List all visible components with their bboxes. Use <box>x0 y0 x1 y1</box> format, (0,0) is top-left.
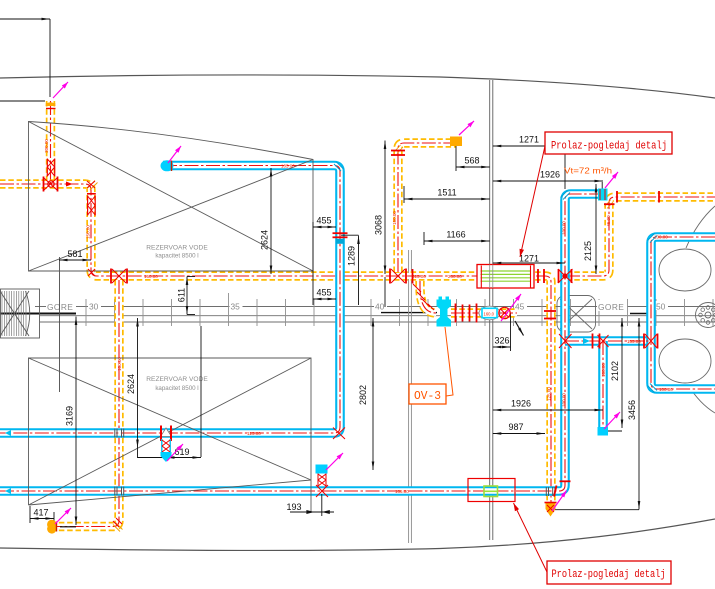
orange cap bottom-left pipe start <box>47 520 56 534</box>
dim 1166 <box>424 240 490 242</box>
svg-text:125.00: 125.00 <box>546 387 551 401</box>
elbow flanges C2 bottom corner <box>554 486 557 497</box>
magenta arrow at suction diamond <box>552 491 567 512</box>
top-left dimension box <box>0 18 50 20</box>
flange on main before elbow right <box>537 269 539 283</box>
svg-text:1511: 1511 <box>437 188 456 198</box>
orange cap top-left pipe start <box>46 102 56 105</box>
propeller shaft centerline black segment <box>630 313 649 315</box>
flange pair on cyan riser x=340 <box>333 232 348 234</box>
svg-text:105.00: 105.00 <box>281 163 295 168</box>
svg-text:kapacitet 8500 l: kapacitet 8500 l <box>155 253 198 260</box>
propeller blade upper <box>659 249 711 291</box>
svg-text:166.00: 166.00 <box>395 489 409 494</box>
svg-text:987: 987 <box>508 422 523 432</box>
orange pipe: vertical riser top-left <box>46 101 55 184</box>
svg-text:581: 581 <box>67 249 82 259</box>
label box: Prolaz-pogledaj detalj (top) <box>520 132 672 257</box>
magenta arrow at C2 top fitting <box>605 172 618 188</box>
flanges on cyan run y=341 <box>592 334 594 349</box>
svg-text:125.00: 125.00 <box>247 431 261 436</box>
corner marks at (340,433) <box>333 428 345 440</box>
valve stub above cross (50.5,167) <box>46 159 48 177</box>
svg-text:100.00: 100.00 <box>117 357 122 371</box>
dim 455 upper <box>313 226 336 228</box>
dim 2624 upper <box>270 168 272 274</box>
cyan elbow fans <box>334 162 344 171</box>
svg-text:35: 35 <box>231 302 241 312</box>
cyan pipe C4: drop x=603 <box>598 341 608 429</box>
magenta arrow at C4 cap <box>604 412 620 429</box>
svg-text:455: 455 <box>316 288 331 298</box>
dim 611 <box>186 277 188 315</box>
orange pipe: right side riser x=608 and top run y=197 <box>566 197 715 276</box>
svg-text:100.00: 100.00 <box>562 221 567 235</box>
magenta arrow at riser (322,470) <box>326 453 343 470</box>
red flange circle <box>499 307 510 318</box>
water tank 2 outline <box>29 358 312 512</box>
svg-text:619: 619 <box>174 447 189 457</box>
oval fitting with bellows <box>479 306 500 320</box>
crossing marks at (119,433) <box>115 429 124 438</box>
pump elbow marks <box>412 269 414 284</box>
GORE label left <box>46 300 76 311</box>
svg-text:REZERVOAR VODE: REZERVOAR VODE <box>146 376 208 383</box>
frame line near x=59 <box>59 257 61 392</box>
label box: Prolaz-pogledaj detalj (bottom) <box>514 503 672 584</box>
svg-text:417: 417 <box>33 508 48 518</box>
svg-text:2125: 2125 <box>583 241 593 261</box>
svg-text:150.00: 150.00 <box>392 211 397 225</box>
svg-text:455: 455 <box>316 216 331 226</box>
svg-text:315.00: 315.00 <box>412 274 426 279</box>
tee marks at (603,341) <box>598 335 609 347</box>
svg-text:REZERVOAR VODE: REZERVOAR VODE <box>146 245 208 252</box>
svg-text:3068: 3068 <box>374 215 384 235</box>
centerline band top line <box>35 306 715 308</box>
dim 1926 top <box>601 182 603 191</box>
flow arrow on pipe y=184 <box>66 182 73 187</box>
cyan centerlines <box>0 166 340 434</box>
water tank 1 cross <box>29 122 314 272</box>
dim 1231 <box>493 262 565 264</box>
propeller blade lower <box>659 339 711 383</box>
svg-text:3456: 3456 <box>627 400 637 420</box>
dim 2102 <box>621 318 623 428</box>
svg-text:160.0: 160.0 <box>484 312 495 317</box>
orange pipe: elbow down to pump <box>420 281 436 313</box>
cyan pipe C5: cooling loop right <box>651 237 715 389</box>
svg-text:326: 326 <box>494 336 509 346</box>
dim 1926 bottom <box>493 409 603 411</box>
pump body OV-3 <box>437 300 452 327</box>
elbow marks (91,184) <box>87 181 95 188</box>
magenta arrow at cyan C1 start <box>168 146 181 163</box>
cyan cap C4 end <box>598 427 609 436</box>
junction cyan/orange at (563.5,276) <box>558 269 573 283</box>
svg-text:100.00: 100.00 <box>659 387 673 392</box>
svg-text:kapacitet 8500 l: kapacitet 8500 l <box>155 385 198 392</box>
svg-text:260.00: 260.00 <box>448 274 462 279</box>
magenta arrow at pump outlet <box>501 294 521 321</box>
frame number 50 <box>655 301 668 310</box>
propeller hub <box>696 303 715 328</box>
svg-text:Prolaz-pogledaj detalj: Prolaz-pogledaj detalj <box>552 569 666 581</box>
pump flanges <box>455 304 457 323</box>
valve on riser x=91 <box>87 196 89 216</box>
svg-text:40: 40 <box>375 302 385 312</box>
dim 2802 <box>372 318 374 470</box>
label box: OV-3 <box>409 327 453 404</box>
crossing marks at (550.5,491) <box>546 487 555 496</box>
stern curve lower <box>688 385 715 413</box>
riser fitting at (322,491) <box>316 485 328 497</box>
pump centerline black segment <box>381 312 437 314</box>
orange diamond suction at (551,513) <box>546 503 556 517</box>
svg-text:2624: 2624 <box>260 230 270 250</box>
flow arrows cyan <box>5 430 11 436</box>
svg-text:45.00: 45.00 <box>606 215 611 227</box>
svg-text:1271: 1271 <box>519 135 539 145</box>
svg-text:GORE: GORE <box>47 302 73 312</box>
frame ticks <box>86 293 713 326</box>
svg-text:OV-3: OV-3 <box>414 390 441 403</box>
cross at cyan loop (651,341) <box>643 334 645 349</box>
svg-text:150.00: 150.00 <box>86 225 91 239</box>
band crossing marks on orange riser x=549 <box>544 310 556 312</box>
dim 3456 <box>638 318 640 510</box>
dim 193 <box>290 511 334 513</box>
svg-text:30: 30 <box>89 302 99 312</box>
dim 2125 <box>595 184 597 274</box>
dim 326 <box>493 346 511 348</box>
dim 581 <box>59 259 91 261</box>
bow thruster hatching <box>2 291 26 336</box>
magenta arrow at orange stub end <box>459 121 474 135</box>
svg-text:1926: 1926 <box>511 399 531 409</box>
dim 568 <box>456 166 490 168</box>
svg-text:GORE: GORE <box>598 302 624 312</box>
passage detail rect top (green hatch) <box>477 265 534 289</box>
svg-text:3169: 3169 <box>65 406 75 426</box>
cyan cap C1 start <box>161 160 174 171</box>
red pipe size texts vertical <box>44 139 611 407</box>
orange pipe: riser x=398 to top stub y=141 <box>398 143 456 272</box>
tee fitting at (398,276) <box>389 269 391 284</box>
stern curve upper <box>686 206 715 248</box>
dim 1289 <box>358 236 360 306</box>
cyan fitting at C2 top stub <box>598 189 608 201</box>
svg-text:568: 568 <box>464 156 479 166</box>
svg-text:2624: 2624 <box>126 374 136 394</box>
svg-text:100.00: 100.00 <box>654 235 668 240</box>
centerline band middle line <box>40 315 715 317</box>
frame number 30 <box>88 301 101 310</box>
orange pipe: pump outlet run <box>451 308 517 317</box>
svg-text:1166: 1166 <box>446 230 465 240</box>
svg-text:2802: 2802 <box>358 385 368 405</box>
svg-text:160.00: 160.00 <box>144 274 158 279</box>
bow thruster rounded cap <box>26 291 30 336</box>
equipment box with X near frame 46 <box>557 296 596 333</box>
dim 417 <box>30 518 54 520</box>
dim 619 <box>166 457 201 459</box>
cyan pipe C2: bottom run y=491, up x=563.5, top stub y=194 <box>0 194 600 491</box>
water tank 1 outline <box>29 122 314 272</box>
svg-text:Prolaz-pogledaj detalj: Prolaz-pogledaj detalj <box>551 141 667 153</box>
svg-text:50: 50 <box>656 302 666 312</box>
svg-text:Vt=72 m³/h: Vt=72 m³/h <box>564 166 612 176</box>
red pipe size texts horizontal <box>144 163 673 494</box>
bow thruster box <box>1 289 40 338</box>
svg-text:100.00: 100.00 <box>562 393 567 407</box>
elbow hatch O7 bottom <box>113 518 122 527</box>
svg-text:193: 193 <box>286 502 301 512</box>
thruster centerline thick black <box>0 313 76 315</box>
frame number 35 <box>230 301 243 310</box>
dim 3169 <box>75 317 77 526</box>
bow thruster cross <box>0 291 29 336</box>
elbow marks (91,272) <box>88 269 95 276</box>
orange pipe: branch down x=119 to bottom-left <box>57 280 119 527</box>
svg-text:100.00: 100.00 <box>601 363 606 377</box>
GORE label right <box>597 300 627 311</box>
cyan pipe C1: top run y=165, down x=340, bottom run y=433 <box>0 166 340 434</box>
dim 3068 <box>384 141 386 275</box>
svg-text:155.00: 155.00 <box>627 339 641 344</box>
dim 2624 lower <box>137 318 139 448</box>
magenta arrow at top-left pipe start <box>53 82 68 98</box>
bulkhead at frame 41 (double gray line) <box>408 250 410 543</box>
dim 987 <box>493 433 545 435</box>
orange centerlines <box>50 101 52 184</box>
cyan pipe C3: run y=341 <box>565 336 651 346</box>
drop fitting at (166,433) <box>160 426 162 442</box>
hull bottom curve <box>0 519 715 550</box>
passage detail rect bottom (green hatch) <box>468 479 515 502</box>
svg-text:1271: 1271 <box>519 254 539 264</box>
dim 1511 <box>404 198 490 200</box>
svg-text:300.00: 300.00 <box>44 139 49 153</box>
bulkhead at frame 44 (double gray line) <box>489 80 491 540</box>
magenta arrow at drop (166,460) <box>167 444 183 461</box>
magenta arrow at bottom-left pipe start <box>55 508 71 524</box>
flange pair on riser x=398 <box>391 150 405 152</box>
crossing marks at (119,491) <box>115 487 124 496</box>
dim 455 lower <box>313 298 336 300</box>
elbow fan hatches <box>88 181 98 191</box>
centerline band bottom line <box>40 321 715 323</box>
orange pipe: main run (y=184 left, down x=91, main y=276, down x=551) <box>0 184 551 502</box>
svg-text:2102: 2102 <box>610 361 620 381</box>
dim 1271 <box>493 145 565 147</box>
svg-text:1289: 1289 <box>347 246 357 266</box>
orange cap end of top stub <box>450 137 462 147</box>
flanges on top-right orange run <box>616 191 618 203</box>
tee fitting at (119,276) <box>110 269 112 284</box>
frame number 45 <box>514 301 527 310</box>
cross fitting at (50,184) <box>48 181 54 187</box>
hull top curve <box>0 75 715 98</box>
frame number 40 <box>374 301 387 310</box>
svg-text:1926: 1926 <box>540 170 560 180</box>
black leader arrow near frame 45 <box>515 321 524 336</box>
water tank 2 cross <box>29 358 312 505</box>
svg-text:611: 611 <box>177 288 187 302</box>
